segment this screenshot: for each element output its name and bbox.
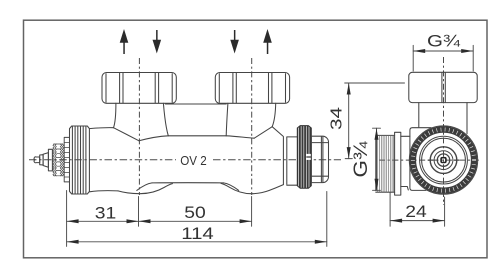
- threads: [378, 136, 394, 192]
- crest top/bottom: [376, 135, 395, 192]
- union nut port 2: [215, 73, 289, 104]
- neck to body: [401, 136, 410, 190]
- body top right segment: [226, 136, 254, 138]
- dimension line 31/50: [67, 220, 252, 222]
- svg-text:50: 50: [184, 203, 206, 222]
- extension line left end: [66, 191, 68, 247]
- knurled handwheel (side, dark band): [297, 126, 311, 189]
- port 1 tube left edge: [114, 103, 116, 127]
- neck top/bottom right: [287, 137, 298, 185]
- extension line port2 center: [251, 197, 253, 227]
- valve insert pin tip: [34, 157, 40, 163]
- body bottom transition right: [224, 183, 239, 191]
- end face: [375, 138, 377, 191]
- collar flange: [395, 132, 401, 195]
- svg-text:24: 24: [405, 202, 427, 221]
- top union nut (right view): [409, 72, 477, 102]
- slant elbow to right collar: [272, 127, 283, 137]
- left threaded port G3/4: [376, 132, 410, 195]
- dim line G3/4 left: [376, 128, 378, 190]
- ext lines G3/4 top: [413, 45, 473, 71]
- insert collar: [64, 137, 69, 182]
- arrowheads right view: [347, 49, 474, 223]
- flow arrow up (port 1): [120, 29, 129, 54]
- svg-text:31: 31: [95, 203, 117, 222]
- body flange (right view, left side): [410, 128, 431, 191]
- ext line 34 top: [345, 82, 405, 84]
- ext tick 34 bottom: [345, 158, 352, 160]
- flow arrow up (port 2): [263, 29, 272, 54]
- flow arrow down (port 1): [153, 30, 162, 54]
- svg-text:114: 114: [181, 224, 214, 243]
- outer rim circle: [409, 126, 477, 194]
- insert step 2: [40, 155, 43, 165]
- bridge web top between ports: [165, 103, 226, 105]
- insert cone: [43, 153, 48, 168]
- bell bottom edge: [89, 191, 118, 192]
- hex cap right end: [311, 136, 328, 182]
- body shoulder slant right of port 2: [254, 127, 272, 139]
- body bottom between bulges: [152, 182, 224, 184]
- horizontal centerline right view: [379, 159, 481, 161]
- knurled ring front (dark circle band): [413, 130, 474, 191]
- insert step 4: [48, 149, 52, 171]
- dim line 24: [390, 220, 445, 222]
- ring r13: [430, 147, 457, 174]
- body bottom bulge port 1: [118, 184, 173, 194]
- serrated adjustment ring: [53, 144, 64, 176]
- centerline port 1: [138, 58, 140, 195]
- tick marks on horizontal axis: [428, 159, 459, 161]
- centerline window in knurl: [306, 154, 311, 160]
- flow arrow down (port 2): [230, 30, 239, 54]
- svg-text:G¾: G¾: [350, 141, 372, 178]
- dimension line 114: [67, 241, 327, 243]
- center square socket: [441, 158, 446, 163]
- tube below nut: [419, 103, 467, 134]
- ring r22: [422, 138, 466, 182]
- body shoulder slant left of port 1: [114, 128, 140, 141]
- ext ticks G3/4 left: [373, 128, 381, 190]
- ext lines 24: [390, 193, 445, 227]
- centerline port 2: [251, 58, 253, 195]
- collar right (double line): [283, 137, 286, 184]
- port 2 tube left edge: [226, 103, 228, 136]
- port 1 tube right edge: [163, 103, 168, 136]
- centerline horizontal (valve axis): [29, 159, 341, 161]
- arrowheads dim row 1: [67, 219, 327, 244]
- port 2 tube right edge: [272, 103, 276, 126]
- vertical centerline right view: [443, 57, 445, 205]
- extension line port1 center: [138, 197, 140, 227]
- ring r24: [420, 136, 468, 184]
- body top left segment: [139, 136, 168, 141]
- extension line right end: [326, 192, 328, 247]
- union nut port 1: [102, 73, 176, 104]
- body bottom right to collar: [269, 185, 283, 191]
- bridge web bottom line between ports: [168, 135, 226, 137]
- svg-text:34: 34: [329, 107, 346, 130]
- svg-text:G¾: G¾: [427, 33, 460, 51]
- bell top edge: [89, 127, 113, 130]
- ribbed union ring (left): [70, 126, 90, 194]
- body bottom transition left: [137, 183, 152, 191]
- ring r9: [434, 151, 453, 170]
- dim line 34: [348, 83, 350, 159]
- ring r6: [437, 154, 449, 166]
- body bottom bulge port 2: [221, 183, 269, 193]
- dim line G3/4 top: [413, 50, 473, 52]
- svg-text:OV 2: OV 2: [180, 153, 207, 168]
